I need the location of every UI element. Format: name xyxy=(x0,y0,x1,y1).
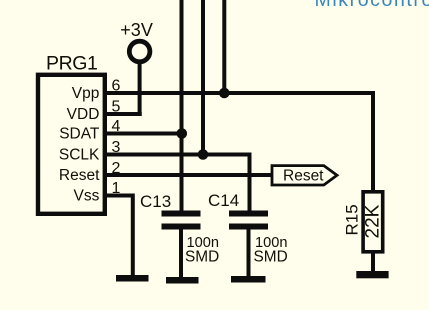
wire C13 to ground xyxy=(179,230,183,279)
wire microcontroller vertical 2 (to SCLK) xyxy=(201,0,205,155)
wire pin4 SDAT horizontal xyxy=(107,132,182,136)
value C13 100n SMD xyxy=(185,235,219,266)
svg-text:Vpp: Vpp xyxy=(72,85,100,102)
wire pin1 Vss horizontal and vertical to ground xyxy=(107,196,133,277)
wire microcontroller vertical 1 (to SDAT / C13) xyxy=(180,0,184,212)
svg-text:VDD: VDD xyxy=(67,106,100,123)
svg-text:3: 3 xyxy=(112,139,121,156)
wire microcontroller vertical 3 (to Vpp) xyxy=(222,0,226,93)
svg-text:R15: R15 xyxy=(342,204,361,235)
svg-text:22K: 22K xyxy=(363,204,384,238)
wire pin5 VDD horizontal xyxy=(107,112,142,116)
svg-text:Reset: Reset xyxy=(59,167,100,184)
svg-text:1: 1 xyxy=(112,180,121,197)
resistor R15 xyxy=(363,192,383,252)
junction dot Vpp xyxy=(219,88,230,99)
svg-text:2: 2 xyxy=(112,160,121,177)
svg-text:C13: C13 xyxy=(140,192,171,211)
ground R15 xyxy=(356,271,388,278)
wire R15 to ground xyxy=(371,252,375,272)
junction dot SCLK xyxy=(198,149,209,160)
ground C13 xyxy=(166,277,199,284)
svg-text:SMD: SMD xyxy=(185,249,219,266)
svg-text:6: 6 xyxy=(112,77,121,94)
capacitor C14 xyxy=(229,211,268,230)
svg-text:Mikrocontroller: Mikrocontroller xyxy=(315,0,429,11)
svg-text:5: 5 xyxy=(112,98,121,115)
wire pin3 SCLK horizontal to C14 xyxy=(107,155,250,212)
wire pin2 Reset horizontal xyxy=(107,173,273,177)
svg-text:Vss: Vss xyxy=(74,187,100,204)
svg-text:SMD: SMD xyxy=(254,249,288,266)
svg-text:PRG1: PRG1 xyxy=(46,53,98,75)
wire C14 to ground xyxy=(247,230,251,278)
wire pin6 Vpp horizontal to R15 xyxy=(107,93,373,192)
flag Reset xyxy=(272,166,337,185)
svg-text:SCLK: SCLK xyxy=(59,146,100,163)
ground C14 xyxy=(231,276,266,283)
ground Vss xyxy=(116,275,149,282)
svg-text:C14: C14 xyxy=(208,191,239,210)
junction dot SDAT xyxy=(177,128,188,139)
svg-text:SDAT: SDAT xyxy=(59,125,100,142)
svg-text:Reset: Reset xyxy=(283,167,324,184)
capacitor C13 xyxy=(162,211,201,230)
svg-text:+3V: +3V xyxy=(120,20,153,40)
value C14 100n SMD xyxy=(254,235,288,266)
power +3V symbol xyxy=(129,41,150,116)
svg-text:4: 4 xyxy=(112,118,121,135)
connector PRG1 xyxy=(38,75,105,214)
